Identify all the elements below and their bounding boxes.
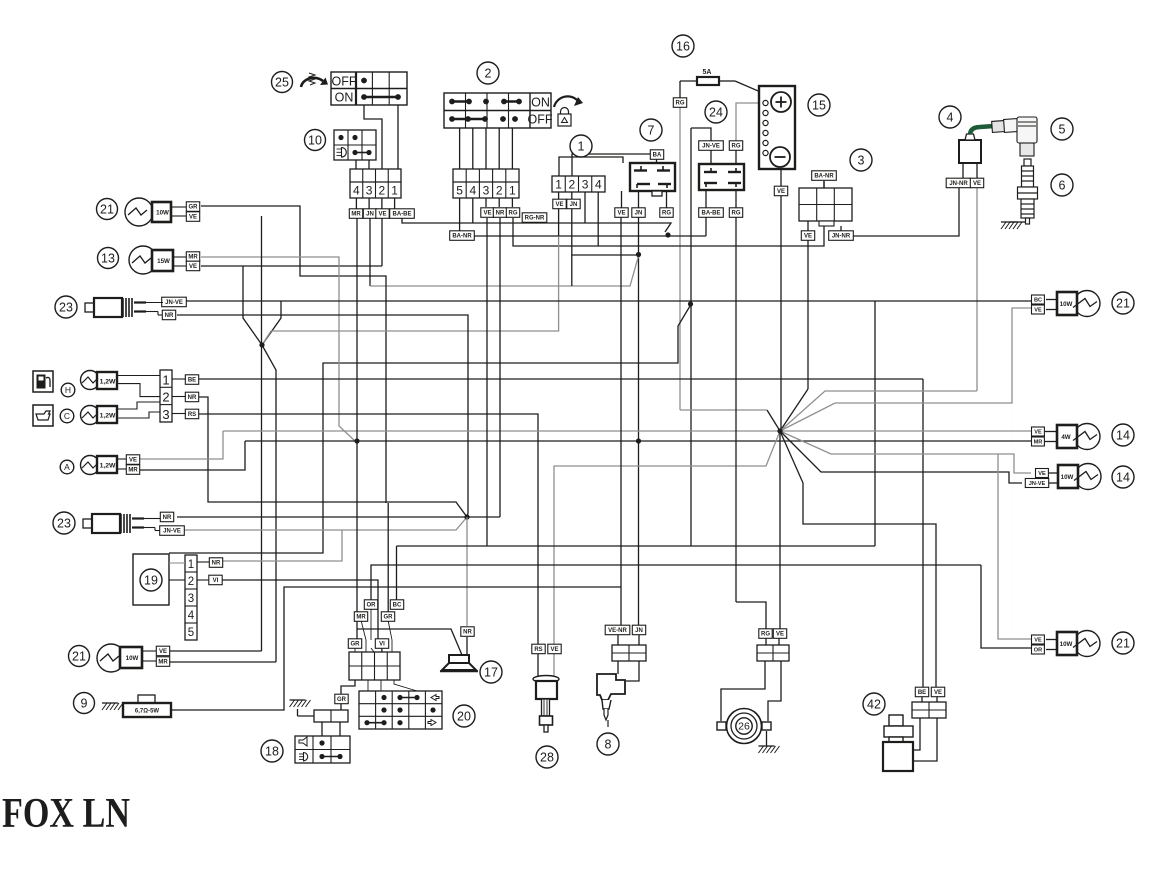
- svg-text:JN: JN: [635, 628, 643, 634]
- svg-text:VE: VE: [1034, 308, 1042, 314]
- svg-text:13: 13: [101, 251, 115, 265]
- svg-text:MR: MR: [128, 468, 138, 474]
- svg-text:7: 7: [648, 123, 655, 137]
- svg-text:1: 1: [578, 139, 585, 153]
- svg-text:10W: 10W: [156, 209, 169, 216]
- svg-text:21: 21: [72, 649, 86, 663]
- svg-text:3: 3: [483, 184, 490, 198]
- svg-text:14: 14: [1116, 470, 1130, 484]
- svg-text:VE: VE: [378, 212, 386, 218]
- svg-text:1: 1: [555, 178, 562, 192]
- svg-text:26: 26: [738, 721, 750, 733]
- svg-text:RG: RG: [732, 211, 741, 217]
- svg-text:JN-NR: JN-NR: [949, 181, 968, 187]
- svg-text:NR: NR: [163, 515, 172, 521]
- svg-text:4W: 4W: [1061, 434, 1070, 441]
- svg-text:4: 4: [469, 184, 476, 198]
- svg-text:16: 16: [676, 39, 690, 53]
- svg-text:VE: VE: [483, 211, 491, 217]
- svg-text:NR: NR: [188, 395, 197, 401]
- svg-text:JN: JN: [366, 212, 374, 218]
- svg-text:H: H: [65, 385, 71, 395]
- svg-text:JN-VE: JN-VE: [165, 300, 183, 306]
- svg-text:RG: RG: [676, 101, 685, 107]
- svg-text:3: 3: [188, 593, 194, 605]
- svg-text:NR: NR: [165, 313, 174, 319]
- svg-text:24: 24: [709, 105, 723, 119]
- svg-text:OFF: OFF: [332, 75, 357, 89]
- svg-text:NR: NR: [496, 211, 505, 217]
- svg-text:VE: VE: [1034, 638, 1042, 644]
- svg-text:VE: VE: [1034, 430, 1042, 436]
- svg-text:5: 5: [456, 184, 463, 198]
- svg-text:2: 2: [496, 184, 503, 198]
- svg-text:2: 2: [485, 66, 492, 80]
- svg-text:10: 10: [308, 133, 322, 147]
- svg-text:9: 9: [81, 696, 88, 710]
- svg-text:8: 8: [605, 737, 612, 751]
- svg-text:NR: NR: [463, 630, 472, 636]
- svg-text:VE: VE: [129, 458, 137, 464]
- svg-text:21: 21: [1116, 296, 1130, 310]
- svg-text:4: 4: [353, 184, 360, 198]
- svg-text:1,2W: 1,2W: [100, 379, 116, 386]
- svg-text:FOX LN: FOX LN: [2, 791, 130, 837]
- svg-text:5: 5: [1059, 122, 1066, 136]
- svg-text:MR: MR: [356, 615, 366, 621]
- svg-text:C: C: [64, 411, 70, 421]
- svg-text:4: 4: [188, 610, 195, 622]
- svg-text:OR: OR: [367, 603, 377, 609]
- svg-text:21: 21: [1116, 636, 1130, 650]
- svg-text:MR: MR: [158, 660, 168, 666]
- svg-text:VE-NR: VE-NR: [608, 628, 627, 634]
- svg-text:BE: BE: [918, 690, 926, 696]
- svg-text:VI: VI: [213, 578, 219, 584]
- svg-text:OR: OR: [1034, 648, 1042, 654]
- svg-text:RG: RG: [761, 632, 770, 638]
- svg-text:OFF: OFF: [528, 113, 553, 127]
- svg-text:42: 42: [867, 697, 881, 711]
- svg-text:VE: VE: [804, 234, 812, 240]
- svg-text:6: 6: [1059, 178, 1066, 192]
- svg-text:BA-NR: BA-NR: [452, 234, 472, 240]
- svg-text:1: 1: [509, 184, 516, 198]
- svg-text:VE: VE: [777, 189, 785, 195]
- svg-text:NR: NR: [212, 561, 221, 567]
- svg-text:RS: RS: [534, 647, 542, 653]
- svg-text:VE: VE: [776, 632, 784, 638]
- svg-text:MR: MR: [1034, 440, 1043, 446]
- svg-text:10W: 10W: [1060, 301, 1073, 308]
- svg-text:A: A: [64, 462, 70, 472]
- svg-text:28: 28: [540, 750, 554, 764]
- svg-text:GR: GR: [384, 615, 394, 621]
- svg-text:GR: GR: [337, 697, 347, 703]
- svg-text:10W: 10W: [126, 655, 139, 662]
- svg-text:18: 18: [265, 744, 279, 758]
- svg-text:23: 23: [57, 516, 71, 530]
- svg-text:1: 1: [188, 559, 194, 571]
- svg-text:VE: VE: [189, 215, 197, 221]
- svg-text:4: 4: [595, 178, 602, 192]
- svg-text:JN: JN: [635, 211, 643, 217]
- svg-text:2: 2: [569, 178, 576, 192]
- svg-text:JN-VE: JN-VE: [702, 144, 720, 150]
- svg-text:6,7Ω-5W: 6,7Ω-5W: [135, 709, 159, 715]
- svg-text:15: 15: [812, 98, 826, 112]
- svg-text:20: 20: [457, 709, 471, 723]
- svg-text:BA-NR: BA-NR: [814, 174, 834, 180]
- svg-text:2: 2: [162, 390, 169, 405]
- svg-text:4: 4: [947, 110, 954, 124]
- svg-text:MR: MR: [188, 255, 198, 261]
- svg-text:1: 1: [162, 373, 169, 388]
- svg-text:21: 21: [100, 202, 114, 216]
- svg-text:JN-VE: JN-VE: [163, 529, 181, 535]
- svg-text:17: 17: [484, 665, 498, 679]
- svg-text:BE: BE: [188, 378, 196, 384]
- svg-text:RG-NR: RG-NR: [525, 216, 545, 222]
- svg-text:5A: 5A: [703, 69, 712, 76]
- svg-text:3: 3: [162, 407, 169, 422]
- svg-text:2: 2: [379, 184, 386, 198]
- svg-text:1,2W: 1,2W: [100, 463, 116, 470]
- svg-text:19: 19: [144, 573, 158, 587]
- svg-text:VI: VI: [379, 642, 385, 648]
- svg-text:MR: MR: [351, 212, 361, 218]
- svg-text:VE: VE: [159, 649, 167, 655]
- svg-text:VE: VE: [189, 264, 197, 270]
- svg-text:GR: GR: [351, 642, 361, 648]
- svg-text:1,2W: 1,2W: [100, 413, 116, 420]
- svg-text:ON: ON: [531, 96, 550, 110]
- svg-text:JN: JN: [570, 202, 578, 208]
- svg-text:BA-BE: BA-BE: [393, 212, 412, 218]
- svg-text:ON: ON: [335, 91, 354, 105]
- svg-text:1: 1: [391, 184, 398, 198]
- svg-text:BC: BC: [393, 603, 402, 609]
- svg-text:3: 3: [858, 153, 865, 167]
- svg-text:23: 23: [59, 300, 73, 314]
- svg-text:VE: VE: [934, 690, 942, 696]
- svg-text:14: 14: [1116, 428, 1130, 442]
- svg-text:VE: VE: [1038, 471, 1046, 477]
- svg-text:GR: GR: [189, 205, 199, 211]
- svg-text:3: 3: [366, 184, 373, 198]
- svg-text:BA-BE: BA-BE: [702, 211, 721, 217]
- svg-text:15W: 15W: [157, 258, 170, 265]
- svg-text:25: 25: [275, 75, 289, 89]
- svg-text:10W: 10W: [1061, 474, 1074, 481]
- svg-text:VE: VE: [617, 211, 625, 217]
- svg-text:5: 5: [188, 627, 194, 639]
- svg-text:2: 2: [188, 576, 194, 588]
- svg-text:RS: RS: [188, 412, 196, 418]
- svg-text:BA: BA: [653, 153, 662, 159]
- svg-text:RG: RG: [732, 144, 741, 150]
- svg-text:10W: 10W: [1060, 641, 1073, 648]
- svg-text:VE: VE: [550, 647, 558, 653]
- svg-text:RG: RG: [662, 211, 671, 217]
- svg-text:JN-NR: JN-NR: [832, 234, 851, 240]
- svg-text:3: 3: [582, 178, 589, 192]
- svg-text:RG: RG: [509, 211, 518, 217]
- svg-text:VE: VE: [555, 202, 563, 208]
- svg-text:BC: BC: [1034, 298, 1042, 304]
- svg-text:JN-VE: JN-VE: [1029, 481, 1046, 487]
- svg-text:VE: VE: [973, 181, 981, 187]
